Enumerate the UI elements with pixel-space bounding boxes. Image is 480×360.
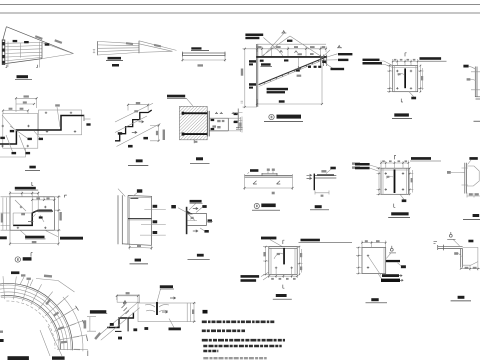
detail8 upper stringer line [115, 103, 153, 122]
detail15 title text [391, 212, 408, 215]
curved canopy right small dim ticks [76, 306, 88, 356]
detail17 bottom label 1 [382, 274, 399, 277]
detail11b hatch strip on top [317, 174, 334, 175]
detail7 top dim line 748 [16, 98, 37, 112]
detail17 title underline [366, 302, 388, 304]
detail11a end extension lines [245, 174, 293, 190]
detail11b left arrow marks [307, 174, 312, 180]
detail21 plate outline [269, 247, 297, 275]
detail1 top edge line to apex [6, 27, 73, 54]
detail9 bottom tick [193, 140, 195, 143]
detail13 right leader lines [140, 210, 166, 236]
detail4 left rotated dim 850 [241, 69, 243, 76]
detail14 horizontal member box [187, 213, 206, 225]
detail12 notch inner lines [13, 212, 52, 225]
detail11a clip marks [253, 181, 280, 184]
detail6 partial title underline [474, 120, 480, 122]
detail14 right label W8 [208, 219, 212, 222]
detail6 label blob [463, 65, 468, 68]
detail15 title underline [388, 217, 410, 219]
detail20 bottom labels [144, 327, 148, 330]
detail5 ML leader [409, 92, 414, 97]
detail17 bottom label 2 bold [381, 279, 400, 282]
detail13 bottom dim [130, 245, 152, 251]
detail20 top dim 250 [117, 296, 138, 303]
detail11b bottom dim [315, 191, 329, 195]
detail9 top-right tick [241, 101, 243, 103]
detail4 hanger dim 74 [297, 75, 302, 77]
detail20 right dim [191, 303, 197, 322]
detail2 label underline [106, 59, 123, 61]
detail1 weld label W4 b [24, 41, 29, 43]
detail5 section mark below [401, 99, 403, 102]
detail11b angle seat 5-5: vertical plate [313, 174, 315, 191]
detail12 dark band on notch top [35, 210, 53, 212]
detail6 bottom clip [476, 97, 480, 99]
detail3 dim text 600 [198, 64, 204, 66]
detail18 phiA label [454, 252, 458, 255]
detail21 section mark below [283, 285, 285, 289]
detail9 title 3-3 [196, 157, 203, 160]
detail11b top leader and labels [326, 169, 332, 174]
detail4 canopy: diagonal brace double line [259, 58, 325, 85]
curved canopy dim arc [63, 297, 83, 351]
curved canopy inner stringer arc [1, 295, 61, 349]
curved canopy arc 4 [0, 292, 64, 350]
detail21 left label line2 [241, 279, 257, 282]
detail9 wall embed 3-3: top label [167, 95, 185, 98]
detail7 stepped flashing section 1-1: plan rect A [3, 114, 38, 149]
detail18 weld symbol [449, 234, 452, 237]
detail15 bolts [385, 172, 405, 190]
detail5 right dim lines [418, 66, 424, 92]
detail20 beam splice: top-left small box [117, 295, 140, 302]
detail9 beam continuation thin [228, 117, 240, 132]
curved canopy outer stringer arc [0, 283, 73, 350]
detail8 right dim line [150, 126, 159, 141]
detail6 tick lines [471, 72, 480, 90]
detail5 inner arc leader [398, 74, 404, 76]
detail8 stair section 2-2: thick stepped plate [115, 110, 152, 141]
detail9 small labels in beam [217, 120, 220, 122]
detail2 rotated slope label a [126, 42, 133, 45]
detail16 top labels [469, 157, 477, 160]
detail9 concrete wall hatched [179, 106, 207, 139]
detail9 beam top flange [209, 118, 228, 131]
detail16 bottom dim [467, 193, 480, 198]
detail11a purlin support: main double line [245, 176, 293, 178]
detail1 tapered-plate plan: left end plate band [2, 40, 5, 65]
detail9 leader to wall [187, 98, 193, 105]
detail15 ML leader and label [400, 194, 404, 199]
detail7 plan rect B [39, 110, 82, 135]
detail4 canopy: hanger bottom clip [296, 66, 302, 72]
detail11a title underline [252, 209, 280, 211]
detail9 anchor bolt lower [183, 133, 207, 135]
detail1 converging body lines [5, 43, 42, 61]
detail20 arrow marks [162, 297, 176, 313]
detail11a left label [250, 169, 258, 172]
detail1 left tip edge [3, 27, 7, 40]
detail21 right dims [297, 247, 302, 275]
detail5 section mark above [405, 53, 407, 57]
detail7 thick stepped plate line [0, 116, 84, 145]
detail1 section marker right [36, 65, 37, 68]
detail14 bottom arrow mark [193, 230, 198, 232]
detail13 column outline [128, 196, 152, 246]
detail17 bolts [367, 255, 369, 269]
detail16 corner angle 6-6: vertical plate double line [465, 163, 467, 194]
curved canopy rotated dim labels in band [45, 299, 50, 305]
detail12 title text [23, 257, 32, 260]
detail4 canopy: wall face double line [256, 44, 257, 107]
detail20 thick step plate [107, 313, 133, 328]
detail5 title text M10 [394, 113, 409, 116]
detail4 brace label L50x4 [261, 63, 271, 65]
notes line 2 [202, 329, 245, 332]
detail8 title underline [128, 165, 148, 167]
detail14 title underline [188, 258, 210, 260]
curved canopy arc 6 [1, 297, 59, 350]
detail21 inner arc leader [274, 253, 283, 259]
curved canopy arc 3 [0, 289, 68, 351]
detail9 top label rule [167, 97, 187, 99]
detail8 title 2-2 [136, 159, 143, 162]
detail3 dim slashes [182, 59, 227, 61]
detail4 right label Wb185mm [338, 53, 352, 55]
curved canopy bottom-left title label [8, 356, 29, 360]
detail12 right bottom label [60, 237, 83, 240]
detail14 left leader [178, 208, 186, 212]
detail4 bottom dim line 500 [257, 99, 322, 106]
curved canopy top label 1 [11, 271, 19, 274]
detail21 anchor plate (bottom middle): top label Wb8mm [261, 237, 276, 240]
detail17 end plate 8-8: plate outline [362, 248, 386, 274]
notes line 3 [202, 339, 285, 342]
detail11b title underline [310, 209, 329, 211]
detail14 inner arc [191, 218, 195, 220]
detail14 bottom label W8 [204, 230, 208, 233]
detail13 column side 1-1: left slab band [118, 195, 122, 244]
curved canopy top label 2 [21, 274, 25, 276]
detail4 right label W8mm [338, 59, 348, 61]
detail15 top dim [381, 161, 408, 169]
detail12 title bubble [15, 257, 20, 262]
detail17 weld symbol circle [390, 248, 393, 251]
detail12 angle label 12deg [21, 213, 25, 215]
detail12 bottom label Wb [25, 236, 44, 239]
detail5 title underline [392, 118, 412, 120]
detail1 rotated slope label R4742 a [35, 35, 43, 40]
detail17 top dim [362, 241, 386, 248]
detail12 thick notch profile [13, 210, 52, 225]
curved canopy radius label [44, 275, 52, 278]
detail1 section marker left [6, 65, 7, 68]
detail5 left label line2 [363, 62, 382, 65]
detail11a title text [261, 204, 275, 208]
detail1 rotated slope label R4742 b [54, 39, 62, 44]
detail7 dim line row3 [3, 111, 28, 115]
detail14 top label Wb8mm [190, 200, 202, 203]
curved canopy radial rafters [3, 276, 80, 350]
curved canopy dim ladder lines [58, 296, 88, 350]
detail5 bolt crosses [396, 70, 412, 90]
detail4 wall anchor clip upper [249, 60, 256, 62]
detail20 beam right inner edge [186, 303, 188, 322]
detail20 hatch label [123, 302, 126, 304]
detail4 canopy: mid hanger rod [297, 58, 299, 69]
detail2 rotated slope label b [154, 44, 161, 48]
detail1 weld label W4 a [13, 40, 18, 42]
detail17 beam stub [386, 260, 400, 262]
detail12 bolt crosses [17, 206, 47, 229]
detail17 right inner edge [383, 248, 385, 274]
detail17 label W8 [401, 265, 406, 268]
sheet top border line 1 [0, 4, 480, 6]
detail17 title 8-8 [371, 298, 378, 301]
detail4b small channel section left [234, 109, 243, 130]
detail5 base plate (upper): plate outline [393, 66, 418, 92]
detail15 center stiffener [394, 169, 396, 193]
detail12 left dims [1, 197, 11, 230]
detail12 top label Wb [15, 187, 36, 190]
detail3 dim line below [183, 57, 226, 62]
detail7 weld label blobs [10, 130, 14, 132]
detail8 small dim mark [134, 110, 138, 112]
detail21 inner edge lines [271, 248, 295, 274]
detail9 right dim [241, 117, 243, 133]
notes line 4 faint [203, 357, 266, 359]
detail8 top dim line 750 [128, 105, 148, 111]
detail1 title text [17, 75, 29, 78]
notes line 3 continuation [203, 345, 281, 348]
detail21 title text [276, 294, 287, 297]
detail5 left leader lines to labels [380, 61, 393, 68]
detail5 inner edge lines [393, 66, 418, 92]
detail12 top dim line [10, 191, 38, 213]
detail9 bolt heads at end plate [211, 119, 215, 121]
detail3 label underline [191, 49, 209, 51]
detail9 marks above beam [215, 112, 223, 113]
detail16 tick lines [462, 168, 469, 185]
detail15 left labels [355, 163, 370, 166]
detail14 hatch blob top of plate [186, 210, 193, 214]
detail14 gusset diagonal [187, 213, 197, 220]
detail1 section cut line a [7, 42, 9, 68]
detail12 inner leaders [15, 200, 58, 237]
detail6 edge-plate section at sheet edge: vertical plate [475, 67, 477, 98]
detail4 top dim slashes [256, 48, 327, 50]
detail4 title text [277, 115, 302, 119]
detail5 top dim micro labels [394, 59, 397, 61]
detail18 far left mark [434, 242, 438, 244]
detail12 top label rule [15, 189, 38, 191]
detail11a top plate [262, 173, 277, 176]
detail15 base plate (lower): outline [381, 168, 408, 194]
detail2 tapered flashing elevation: left edge [97, 41, 99, 55]
curved canopy top leader lines [20, 277, 33, 286]
detail14 label W8 top-right [202, 205, 206, 208]
detail13 title 1-1 [135, 259, 141, 262]
curved canopy left edge tick labels [0, 339, 4, 342]
detail12 dim row2 [32, 196, 54, 200]
notes heading [203, 310, 208, 314]
curved canopy dashed setting-out arc [6, 301, 55, 349]
detail15 section mark above [394, 155, 396, 159]
detail11b title 5-5 [315, 205, 322, 208]
detail20 label Wb8mm left [90, 310, 106, 313]
detail13 title underline [130, 263, 149, 265]
sheet top border line 2 [0, 12, 480, 14]
curved canopy long radius leader [36, 279, 75, 293]
detail20 center splice bar [156, 302, 158, 315]
detail5 top-right label Wb170/20/4Pb [420, 57, 442, 60]
detail8 lower stringer line [117, 124, 161, 147]
detail21 center stiffener [283, 248, 285, 265]
detail4 right extension line [321, 60, 323, 104]
detail12 right top tick [64, 195, 66, 197]
detail21 left label line1 [241, 275, 260, 278]
detail3 flat bar plate elevation [183, 53, 226, 56]
detail20 tri mark [124, 301, 127, 304]
notes line 1 [202, 320, 275, 323]
detail12 inner mark [39, 216, 43, 218]
detail7 leader diagonals [2, 115, 40, 152]
detail7 title underline [25, 169, 40, 171]
detail4 weld mark on beam left [260, 60, 264, 62]
detail21 left dim [263, 247, 269, 275]
detail4 weld mark on beam mid [284, 59, 288, 61]
detail12 top section mark [32, 182, 33, 186]
detail20 splice curved leaders [145, 305, 169, 312]
detail7 plan rect C lower-left [0, 148, 26, 157]
detail21 bottom dim [269, 269, 297, 278]
detail18 bottom dim [461, 262, 480, 271]
detail7 step end tick [83, 115, 85, 121]
detail20 main beam rect [138, 303, 191, 322]
detail13 upper-left leader [118, 189, 125, 197]
detail20 second thick step [115, 319, 128, 332]
detail21 top-right label rule [299, 241, 353, 243]
detail4 right flag mark [337, 46, 342, 48]
detail4 top-left label line1 W100x100x6 [245, 34, 263, 37]
detail8 arrow marks [139, 121, 144, 123]
detail4 canopy: main beam thick line [256, 56, 327, 58]
detail12 gusset plate: outer rect [10, 197, 54, 230]
detail9 title underline [190, 163, 210, 165]
detail5 top dim line [393, 59, 418, 66]
curved canopy bottom label right [52, 356, 65, 359]
detail5 left dim line [387, 66, 393, 92]
detail16 bracket outline [467, 166, 480, 186]
detail8 weld blobs [118, 132, 122, 135]
detail2 left dim tick [93, 49, 95, 53]
detail4 C-purlin ticks below beam [308, 66, 311, 68]
detail4 left dim slashes [244, 48, 246, 108]
detail20 stringer diagonals [96, 302, 139, 340]
detail7 bolts [1, 112, 76, 148]
detail16 phi label [447, 171, 451, 174]
detail5 left label line1 [363, 59, 380, 61]
detail4 top-left leader [263, 38, 283, 57]
detail4 brace lower labels [267, 88, 288, 91]
detail13 top label [137, 189, 142, 192]
detail11c stray labels right [352, 162, 360, 164]
detail21 top plate edge [267, 247, 299, 249]
detail4 right leader fan [322, 50, 338, 69]
detail2 end tick [138, 41, 140, 53]
detail4 upper dim label 254 [287, 40, 292, 42]
detail4 left dim line [243, 49, 258, 107]
detail4 top dim labels [258, 46, 325, 48]
detail21 bolts [275, 267, 293, 269]
detail20 left dim [87, 317, 96, 332]
detail18 label W8 [468, 240, 473, 243]
detail15 right label [411, 157, 431, 160]
detail11a bottom dim [245, 187, 293, 189]
detail6 leader curve [469, 66, 476, 69]
detail21 title underline [273, 298, 292, 300]
detail13 mid splice double line [128, 218, 152, 220]
detail21 top label leader [270, 240, 283, 247]
detail3 right end tick [224, 52, 226, 57]
detail13 right labels [153, 205, 158, 208]
detail14 seat bracket 6-6: vertical plate [186, 207, 188, 234]
detail2 converging lines [98, 41, 140, 55]
detail8 diagonal dim line [115, 116, 147, 133]
detail17 left dim [356, 248, 362, 274]
detail11b horizontal leg [315, 176, 336, 178]
detail11a mid labels [267, 169, 270, 171]
notes line 3 end [203, 350, 218, 353]
detail16 title 6-6 [473, 214, 480, 217]
detail18 column double line down [461, 249, 463, 268]
detail16 title underline [463, 218, 480, 220]
detail20 rotated dim along diagonal [94, 332, 101, 340]
detail3 left end tick [182, 52, 184, 57]
detail5 ML label [411, 97, 416, 100]
detail15 left dim [377, 168, 382, 194]
detail8 rotated slope note [163, 130, 165, 141]
detail8 right rotated label 74 [156, 131, 158, 135]
detail4 wall anchor clip lower [249, 83, 256, 86]
detail9 anchor bolt upper [183, 112, 207, 114]
detail9 end plate double line [208, 111, 210, 136]
detail4 top-left label line2 [245, 37, 259, 39]
detail4 big X leader lines [262, 33, 322, 57]
detail7 dim line row2 [16, 103, 34, 105]
detail12 left bottom label [0, 236, 7, 239]
detail4 flag mark top [282, 31, 287, 33]
detail1 inner stiffener tick [20, 43, 22, 58]
detail4 title underline [264, 121, 303, 123]
detail7 right edge dim [84, 118, 91, 120]
detail14 title 6-6 [197, 254, 204, 257]
curved canopy bottom leaders [40, 326, 62, 356]
detail18 gusset outline chamfered [463, 248, 478, 266]
detail12 bottom dim [10, 230, 59, 245]
detail17 leader lines to bottom labels [368, 256, 382, 280]
detail18 title 1-1 [458, 296, 465, 299]
detail15 section mark below [394, 204, 396, 208]
detail7 phi leader on rect B [57, 107, 60, 127]
detail4 right label C70/20 [331, 68, 345, 70]
detail1 bottom edge [3, 59, 42, 64]
detail18 beam left ticks [438, 245, 444, 251]
detail4 gray marks above beam right [298, 53, 302, 55]
detail5 center stiffener bar [404, 68, 406, 88]
detail20 hatch ticks [122, 305, 130, 315]
